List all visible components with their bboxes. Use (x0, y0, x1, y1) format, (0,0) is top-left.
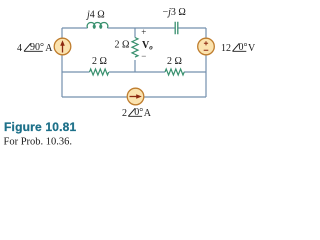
wire top rail right segment (capacitor to right node) (178, 27, 206, 29)
svg-text:4: 4 (17, 43, 22, 54)
wire right vertical branch (205, 28, 207, 97)
svg-text:12: 12 (221, 43, 231, 54)
svg-text:2 Ω: 2 Ω (115, 40, 130, 51)
svg-text:90°: 90° (30, 42, 44, 53)
svg-text:2 Ω: 2 Ω (167, 56, 182, 67)
svg-text:0°: 0° (239, 42, 248, 53)
svg-text:2: 2 (122, 108, 127, 119)
wire top rail left segment (left node to inductor) (62, 27, 88, 29)
svg-text:0°: 0° (134, 107, 143, 118)
svg-text:−: − (141, 51, 146, 61)
value label 12 angle 0 deg V (221, 42, 256, 54)
wire left vertical branch (61, 28, 63, 97)
svg-text:j4 Ω: j4 Ω (85, 10, 105, 21)
resistor 2 ohm middle-left (middle rail) (90, 69, 109, 75)
wire middle rail center segment (109, 71, 165, 73)
inductor j4 ohm (top rail) (87, 22, 108, 28)
wire top rail mid segment (inductor to capacitor) (108, 27, 175, 29)
value label 2 angle 0 deg A (122, 107, 152, 119)
svg-text:Figure 10.81: Figure 10.81 (4, 120, 77, 134)
svg-text:A: A (144, 108, 152, 119)
svg-text:For Prob. 10.36.: For Prob. 10.36. (4, 137, 73, 148)
svg-text:2 Ω: 2 Ω (92, 56, 107, 67)
current source 2/0 A (bottom rail, arrow right) (127, 88, 144, 105)
wire middle rail left segment (62, 71, 90, 73)
svg-text:+: + (141, 27, 146, 37)
svg-text:V: V (248, 43, 255, 54)
wire middle vertical branch (Vo resistor leads) (134, 28, 136, 72)
value label 4 angle 90 deg A (17, 42, 53, 54)
resistor 2 ohm middle-right (middle rail) (165, 69, 184, 75)
current source 4/90 A (left branch, arrow up) (54, 38, 71, 55)
wire bottom rail (62, 96, 206, 98)
voltage source 12/0 V (right branch, + top) (198, 38, 215, 55)
svg-text:−j3 Ω: −j3 Ω (163, 7, 186, 18)
svg-text:A: A (45, 43, 53, 54)
capacitor -j3 ohm (top rail) (175, 22, 178, 34)
resistor 2 ohm vertical (across Vo) (132, 38, 138, 58)
wire middle rail right segment (184, 71, 206, 73)
